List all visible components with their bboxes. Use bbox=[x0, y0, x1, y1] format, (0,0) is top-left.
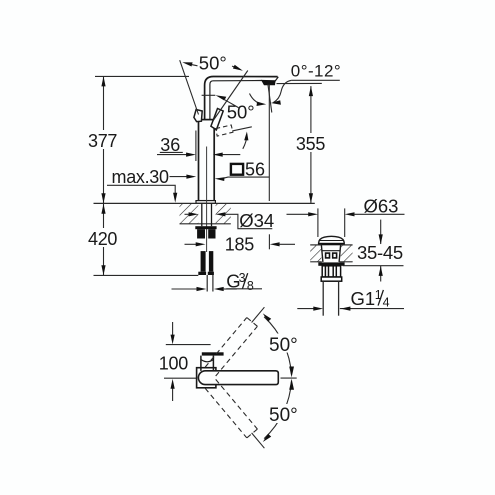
deck bottom line bbox=[180, 223, 231, 225]
mounting washer bbox=[195, 226, 216, 229]
0-12 left arc bbox=[250, 94, 259, 104]
0-12 right arc bbox=[273, 80, 291, 102]
square symbol for 56 bbox=[231, 164, 243, 175]
mounting nut bbox=[197, 229, 205, 238]
Ø63 dimension arrows bbox=[287, 213, 310, 215]
label 355 bbox=[293, 133, 329, 152]
36 underline bbox=[160, 151, 183, 153]
35-45 bottom reference line bbox=[343, 265, 404, 267]
G1 1/4 underline / arrow line bbox=[340, 308, 404, 310]
hose end fittings bbox=[198, 272, 206, 275]
handle 50deg line right bbox=[213, 71, 248, 121]
svg-text:G1: G1 bbox=[351, 288, 376, 309]
drain cap rim line bbox=[320, 240, 343, 242]
max.30 leader underline and down arrow bbox=[107, 185, 175, 195]
drain deck bottom line bbox=[310, 261, 322, 263]
36 arrows bbox=[157, 154, 187, 156]
dashed spout rotated down bbox=[205, 379, 257, 438]
svg-text:185: 185 bbox=[225, 234, 254, 254]
50deg arc lower bbox=[264, 381, 291, 439]
drain cap base flange bbox=[318, 243, 345, 246]
plan handle bar bbox=[202, 352, 224, 355]
label 420 bbox=[85, 228, 120, 247]
355 top tick bbox=[277, 82, 322, 84]
0-12 underline bbox=[291, 79, 339, 81]
dimension 100 arrows bbox=[172, 322, 174, 336]
dimension 355 line bbox=[310, 86, 312, 203]
drain deck hatching bbox=[310, 245, 321, 261]
drain cap extension line left bbox=[317, 208, 319, 237]
deck hatching left bbox=[180, 204, 199, 224]
Ø34 leader bbox=[225, 214, 273, 228]
drain tailpipe bbox=[322, 281, 324, 316]
deck top line bbox=[94, 202, 315, 204]
svg-text:8: 8 bbox=[247, 279, 254, 293]
svg-text:420: 420 bbox=[88, 229, 117, 249]
drain locknut body bbox=[322, 266, 340, 277]
faucet spout arm inner edge bbox=[210, 81, 262, 120]
dashed spout rotated up bbox=[205, 318, 257, 377]
label 377 bbox=[85, 130, 120, 149]
spout tip extension line bbox=[268, 85, 270, 202]
svg-text:100: 100 bbox=[159, 354, 188, 374]
svg-text:50°: 50° bbox=[269, 405, 298, 426]
label 50 lower bbox=[267, 404, 300, 423]
185 left arrow bbox=[185, 243, 197, 245]
deck hatching right bbox=[216, 204, 231, 224]
spout tip bevel bbox=[275, 77, 278, 81]
top extension line (spout top level) bbox=[95, 75, 189, 77]
svg-text:4: 4 bbox=[383, 296, 390, 310]
drain locknut bottom band bbox=[321, 277, 342, 281]
svg-text:35-45: 35-45 bbox=[357, 242, 403, 263]
rotated spout axis stub upper bbox=[252, 307, 265, 322]
185 right arrow bbox=[270, 242, 280, 246]
faucet centerline bbox=[206, 147, 208, 253]
svg-text:Ø63: Ø63 bbox=[364, 195, 399, 216]
rotated spout axis stub lower bbox=[252, 433, 265, 448]
35-45 dimension bbox=[380, 220, 382, 244]
Ø34 arrows bbox=[185, 213, 191, 215]
svg-text:0°-12°: 0°-12° bbox=[291, 61, 341, 80]
drain cap extension line right bbox=[344, 208, 346, 237]
drain locknut flange bbox=[318, 262, 344, 265]
56 leader underline bbox=[224, 177, 270, 178]
handle 50deg line left bbox=[180, 60, 199, 114]
svg-text:Ø34: Ø34 bbox=[239, 210, 274, 231]
faucet base plate bbox=[196, 201, 215, 204]
lever lift arc arrow bbox=[243, 135, 247, 149]
mid 50deg arrow on lever axis bbox=[225, 100, 239, 108]
100 extension line top bbox=[166, 344, 211, 346]
dimension 377 line bbox=[103, 76, 105, 203]
100 extension line bottom bbox=[164, 377, 200, 379]
svg-text:355: 355 bbox=[296, 134, 325, 154]
svg-text:50°: 50° bbox=[199, 52, 227, 73]
faucet body bbox=[199, 120, 215, 201]
G3/8 arrows bbox=[172, 288, 198, 290]
handle 50deg arrow right bbox=[232, 66, 239, 68]
svg-text:377: 377 bbox=[88, 131, 117, 151]
drain deck top line bbox=[310, 244, 321, 246]
faucet spout arm outer edge bbox=[205, 77, 278, 120]
12 degree tilted line bbox=[268, 84, 272, 112]
36 extension line bbox=[195, 131, 197, 162]
50deg arc upper bbox=[264, 317, 291, 375]
handle lever dashed (closed position) bbox=[216, 125, 233, 136]
svg-text:50°: 50° bbox=[269, 335, 298, 356]
lever closed leader bbox=[232, 127, 252, 131]
pipe tick (50 deg reference) bbox=[202, 94, 216, 96]
plan handle neck bbox=[200, 356, 202, 371]
bottom extension line bbox=[94, 274, 199, 276]
aerator bbox=[262, 80, 276, 85]
svg-text:max.30: max.30 bbox=[112, 167, 170, 187]
handle lever right (open position) bbox=[211, 109, 223, 130]
plan square base plate bbox=[197, 368, 216, 388]
plan centerline right bbox=[281, 377, 297, 379]
dimension 420 line bbox=[103, 204, 105, 276]
G3/8 underline bbox=[226, 288, 262, 290]
drain cap dome bbox=[319, 236, 345, 243]
label 50 upper bbox=[267, 334, 300, 353]
G3/8 thread tube bbox=[206, 275, 208, 292]
shank through deck bbox=[201, 203, 203, 226]
handle lever left (rotated position) bbox=[194, 110, 202, 122]
svg-text:50°: 50° bbox=[227, 101, 255, 122]
drain overflow windows bbox=[326, 253, 330, 258]
max.30 arrow to body bbox=[170, 176, 188, 178]
plan spout bar bbox=[198, 371, 278, 385]
G1 1/4 arrows bbox=[297, 308, 314, 310]
drain body through deck bbox=[321, 245, 323, 262]
handle 50deg arrow left bbox=[188, 64, 198, 66]
supply hose tails bbox=[201, 251, 206, 272]
